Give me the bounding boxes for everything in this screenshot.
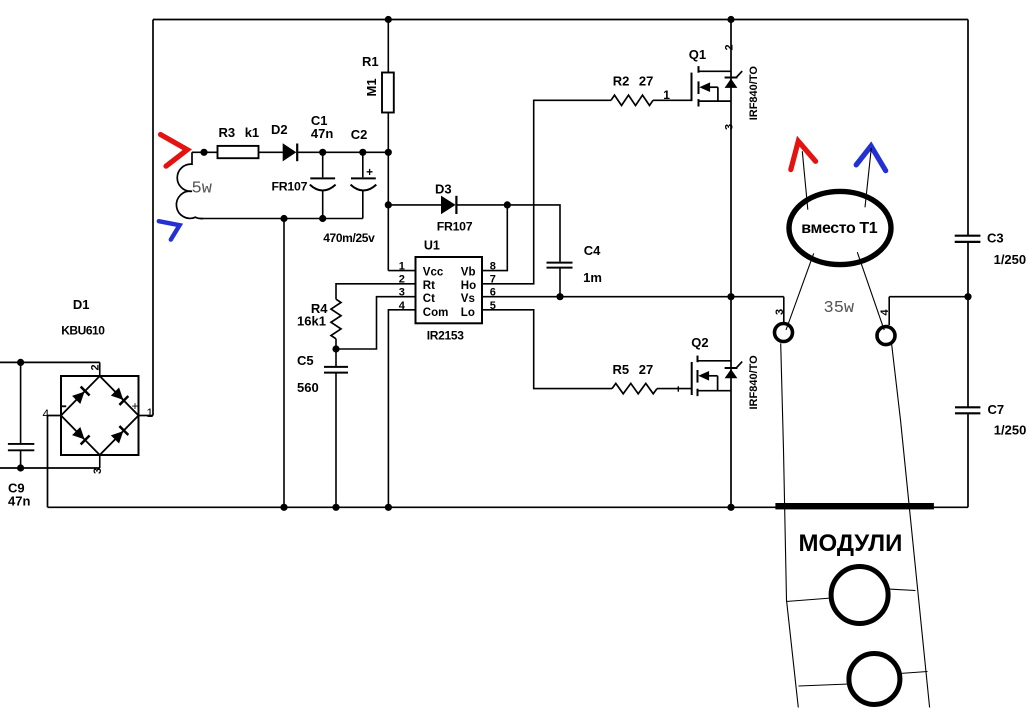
wire U1 pin5 Lo riser to R5 [482,310,612,389]
svg-text:C5: C5 [297,353,314,368]
wire U1 pin6 Vs mid rail [482,296,784,298]
lamp terminal pin 4 [877,327,895,345]
capacitor C9 [8,362,34,468]
pin number 7 of U1 [490,274,496,286]
svg-text:47n: 47n [311,126,333,141]
pin label 3 of D1 [92,468,104,474]
diode D3 [441,196,456,215]
svg-text:C2: C2 [351,127,368,142]
wire left rail [152,20,154,416]
svg-text:3: 3 [92,468,104,474]
label U1 [424,238,440,252]
wire module left slant [781,343,799,707]
label U1 pin name Com [423,307,449,319]
wire module tick left of circle 1 [786,598,832,602]
junction dot C1 bottom [319,215,326,222]
wire U1 pin7 Ho riser to R2 [482,100,611,283]
label R3 [219,125,236,140]
resistor R2 [611,95,653,105]
junction dot bottom wire left [280,215,287,222]
bridge diode top-right (pin2 to pin1) [111,387,128,404]
label D1 value KBU610 [61,324,105,338]
svg-text:Vs: Vs [461,293,475,305]
label C4 [584,243,601,258]
thick bar lamp holder [775,503,934,509]
pin label 3 of lamp [774,309,786,315]
svg-text:1m: 1m [583,270,602,285]
wire supply rail to R1 [387,20,389,73]
svg-text:Ct: Ct [423,293,435,305]
label U1 pin name Vb [461,266,476,278]
wire right rail upper segment [967,20,969,236]
wire module tick right of circle 1 [888,589,916,591]
label C3 [987,230,1004,245]
svg-text:3: 3 [774,309,786,315]
wire R1 to Vcc node [387,113,389,271]
wire right mid segment to rail [889,296,968,298]
wire R4 bottom to C5 node [335,339,337,349]
svg-text:3: 3 [723,124,735,130]
wire right rail lower segment [967,414,969,508]
junction dot C1 top [319,149,326,156]
capacitor C5 [324,349,348,507]
pin tick 1 of Q2 [677,386,679,391]
resistor R5 [612,383,657,393]
wire module right slant [892,343,930,708]
svg-text:Q2: Q2 [691,335,708,350]
wire U1 pin3 Ct riser [336,297,416,349]
wire mid rail to lamp pin 3 [783,297,785,323]
capacitor C7 [955,407,980,413]
wire inductor-bottom node to ground rail [283,219,285,508]
junction dot ground rail Com [385,504,392,511]
label U1 pin name Rt [423,280,435,292]
wire U1 pin1 Vcc [388,270,415,272]
wire U1 pin4 Com to ground rail [388,310,415,508]
capacitor C1 [310,152,336,218]
label C2 [351,127,368,142]
pin label 2 of D1 [90,364,102,370]
inductor L1 5w coil [176,152,203,218]
wire AC input top [0,361,100,363]
svg-text:Ho: Ho [461,280,476,292]
label C1 [311,113,328,128]
svg-text:R1: R1 [362,54,379,69]
svg-text:IR2153: IR2153 [427,328,465,342]
wire D3 anode [388,204,441,206]
svg-text:R2: R2 [613,73,630,88]
label U1 value IR2153 [427,328,465,342]
capacitor C3 [955,236,981,242]
wire transformer to lamp pin 4 [857,252,884,330]
junction dot ground rail C5 [332,504,339,511]
label lamp power 35w [824,299,855,318]
label Q1 value IRF840/TO [748,66,760,121]
wire bottom ground rail [48,506,969,508]
junction dot ground rail left [280,504,287,511]
wire bridge pin2 lead [99,362,101,376]
svg-text:27: 27 [639,73,653,88]
label D3 [435,181,452,196]
label Q2 value IRF840/TO [748,355,760,410]
svg-text:+: + [132,399,139,413]
svg-text:D3: D3 [435,181,452,196]
svg-text:M1: M1 [364,78,379,96]
wire bridge pin4 lead to bottom rail [48,416,62,508]
label C2 value 470m/25v [323,231,375,245]
wire U1 pin8 Vb riser [482,205,507,271]
label D3 value FR107 [437,219,473,233]
label R1 [362,54,379,69]
svg-text:C3: C3 [987,230,1004,245]
label R5 value 27 [639,362,653,377]
svg-text:U1: U1 [424,238,440,252]
resistor R3 [218,146,259,158]
svg-text:Vcc: Vcc [423,266,444,278]
pin label 1 of D1 [147,406,154,420]
label C7 value 1/250 [994,423,1027,438]
svg-text:C4: C4 [584,243,601,258]
label Q2 [691,335,708,350]
bridge rectifier D1 KBU610 body [61,376,139,455]
label C9 value 47n [8,494,30,509]
svg-text:4: 4 [43,407,50,421]
red arrow above transformer [791,141,816,169]
wire bridge pin3 lead [99,455,101,468]
label D2 [271,122,288,137]
junction dot C9 bottom [17,464,24,471]
junction dot C9 top [17,359,24,366]
wire bridge pin1 lead to left rail [139,415,154,417]
transformer T1 replacement ellipse [789,191,891,264]
svg-text:Lo: Lo [461,307,475,319]
bridge diode top-left (pin4 to pin2) [72,387,89,404]
pin label 4 of lamp [879,309,891,316]
svg-text:вместо T1: вместо T1 [801,220,877,237]
label U1 pin name Vs [461,293,475,305]
svg-text:D2: D2 [271,122,288,137]
wire lamp pin 4 riser [888,297,890,325]
svg-text:47n: 47n [8,494,30,509]
pin number 1 of U1 [399,261,405,273]
svg-text:C7: C7 [988,402,1005,417]
svg-text:Q1: Q1 [689,47,706,62]
wire transformer to lamp pin 3 [786,253,814,330]
svg-text:IRF840/TO: IRF840/TO [748,66,760,121]
svg-text:R5: R5 [613,362,630,377]
label C5 [297,353,314,368]
resistor R1 [382,73,394,113]
svg-text:+: + [366,167,373,179]
capacitor C2 (polarized) [351,152,377,218]
blue arrow above transformer [856,146,886,171]
module lamp circle 2 [849,654,900,705]
svg-text:16k1: 16k1 [297,313,326,328]
svg-text:2: 2 [723,44,735,50]
bridge diode bottom-left (pin4 to pin3) [72,427,89,444]
node input (junction dot after red arrow) [200,149,207,156]
pin number 6 of U1 [490,287,496,299]
label R4 value 16k1 [297,313,326,328]
junction dot right rail mid [964,293,971,300]
junction dot mid rail C4 [556,293,563,300]
label вместо T1 [801,220,877,237]
label plus of D1 [132,399,139,413]
lamp terminal pin 3 [775,324,793,342]
label D1 [73,297,90,312]
junction dot D3 anode node [385,201,392,208]
wire R3 to D2 [259,151,284,153]
label C7 [988,402,1005,417]
pin number 3 of U1 [399,287,405,299]
svg-text:27: 27 [639,362,653,377]
wire R5 to Q2 gate [657,388,692,390]
svg-text:R3: R3 [219,125,236,140]
red input arrow [161,135,188,167]
wire Q1 drain rail [730,20,732,297]
svg-text:5w: 5w [192,180,213,199]
junction dot R1 top on supply rail [385,16,392,23]
svg-text:1/250: 1/250 [994,252,1027,267]
wire inductor bottom to C2 bottom [200,218,363,220]
wire D3 cathode to C4 top [456,205,560,262]
label R3 value k1 [245,125,259,140]
label R2 value 27 [639,73,653,88]
pin number 8 of U1 [490,261,496,273]
pin number 5 of U1 [490,300,496,312]
pin number 4 of U1 [399,300,406,312]
label R5 [613,362,630,377]
wire module tick right of circle 2 [900,672,928,674]
junction dot C2 top [359,149,366,156]
label C2 plus sign [366,167,373,179]
label L1 value 5w [192,180,213,199]
label C3 value 1/250 [994,252,1027,267]
label C1 value 47n [311,126,333,141]
label U1 pin name Ct [423,293,435,305]
capacitor C4 [547,263,573,297]
wire right rail middle segment [967,242,969,406]
label minus of D1 [62,405,67,407]
svg-text:4: 4 [879,309,891,316]
wire input node to R3 [192,151,218,153]
label R2 [613,73,630,88]
junction dot mid rail Q rail [727,293,734,300]
op-amp U1 IR2153 body [416,257,483,323]
svg-text:35w: 35w [824,299,855,318]
wire top supply rail [153,19,968,21]
junction dot Q2 source on ground rail [727,504,734,511]
pin number 2 of U1 [399,274,405,286]
resistor R4 [331,299,341,339]
svg-text:560: 560 [297,380,319,395]
label МОДУЛИ [799,530,903,557]
svg-text:2: 2 [90,364,102,370]
junction dot R4 C5 node [332,345,339,352]
wire transformer lead to blue arrow [865,148,871,207]
svg-text:KBU610: KBU610 [61,324,105,338]
svg-text:470m/25v: 470m/25v [323,231,375,245]
wire module tick left of circle 2 [799,684,850,686]
diode D2 [283,143,298,161]
svg-text:1/250: 1/250 [994,423,1027,438]
junction dot Q1 drain on supply rail [727,16,734,23]
label U1 pin name Vcc [423,266,444,278]
junction dot Vb riser node [504,201,511,208]
svg-text:МОДУЛИ: МОДУЛИ [799,530,903,557]
wire D2 to C1 C2 R1 node [297,151,388,153]
blue input arrow [159,221,180,239]
pin number 1 of Q1 [663,88,670,102]
pin label 4 of D1 [43,407,50,421]
svg-text:Rt: Rt [423,280,435,292]
label Q1 [689,47,706,62]
module lamp circle 1 [831,567,888,624]
wire AC input bottom [0,467,100,469]
pin label 3 of Q1 [723,124,735,130]
label C9 [8,481,25,496]
svg-text:D1: D1 [73,297,90,312]
label R1 value M1 [364,78,379,96]
label U1 pin name Ho [461,280,476,292]
svg-text:FR107: FR107 [272,180,308,194]
transistor Q2 IRF840 [692,356,743,397]
label U1 pin name Lo [461,307,475,319]
svg-text:FR107: FR107 [437,219,473,233]
svg-text:Com: Com [423,307,449,319]
wire Q2 drain rail [730,297,732,508]
label D2 value FR107 [272,180,308,194]
pin label 2 of Q1 [723,44,735,50]
wire R2 to Q1 gate [653,99,692,101]
svg-text:k1: k1 [245,125,259,140]
wire transformer lead to red arrow [802,151,808,210]
svg-text:Vb: Vb [461,266,476,278]
svg-text:IRF840/TO: IRF840/TO [748,355,760,410]
svg-text:1: 1 [147,406,154,420]
label R4 [311,301,328,316]
label C5 value 560 [297,380,319,395]
junction dot R1 bottom node [385,149,392,156]
label C4 value 1m [583,270,602,285]
wire U1 pin2 Rt to R4 [336,284,416,299]
bridge diode bottom-right (pin3 to pin1) [111,426,128,443]
transistor Q1 IRF840 [692,66,743,106]
